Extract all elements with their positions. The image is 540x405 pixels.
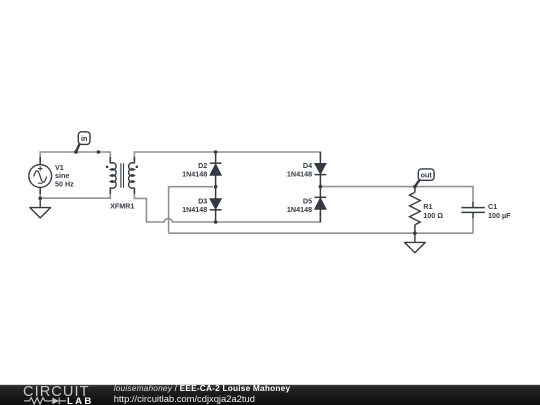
junction dot: in-flag attach — [74, 150, 78, 154]
svg-text:1N4148: 1N4148 — [287, 169, 312, 178]
wire: bottom rail (net 0) riser to R1/C1 bottoms — [169, 232, 473, 234]
junction dot: D2 top — [214, 150, 218, 154]
wire: C1 bottom lead lower part — [472, 217, 474, 233]
junction dot: D3 bottom — [214, 220, 218, 224]
svg-text:http://circuitlab.com/cdjxqja2: http://circuitlab.com/cdjxqja2a2tud — [114, 393, 255, 404]
svg-text:out: out — [421, 170, 433, 179]
transformer phase dot left — [106, 166, 109, 169]
junction dot: V1 bottom / ground — [38, 196, 42, 200]
wire: transformer secondary bottom to D3/D5 bottoms with hop — [134, 190, 320, 222]
label C1 — [488, 202, 511, 220]
wire: transformer secondary top to D2/D4 tops — [134, 152, 320, 161]
logo waveform: lead, resistor zigzag, diode — [24, 398, 66, 405]
label V1 value — [55, 163, 74, 189]
diode D2 — [210, 152, 222, 187]
capacitor C1 — [461, 202, 485, 218]
svg-text:50 Hz: 50 Hz — [55, 180, 74, 189]
svg-text:LAB: LAB — [67, 396, 94, 405]
wire: D2/D3 junction left, down riser to bottom rail — [169, 187, 213, 234]
svg-text:XFMR1: XFMR1 — [110, 202, 134, 211]
label D2 — [182, 161, 207, 179]
wire net-in: V1 top to transformer primary top — [40, 152, 110, 162]
svg-text:louisemahoney / EEE-CA-2 Louis: louisemahoney / EEE-CA-2 Louise Mahoney — [114, 383, 291, 393]
diode D4 — [315, 152, 327, 187]
label D3 — [182, 197, 207, 215]
junction dot: top wire mid — [97, 150, 101, 154]
junction dot: R1 top / out — [413, 185, 417, 189]
label D5 — [287, 197, 312, 215]
node flag in — [76, 132, 90, 152]
resistor R1 — [410, 187, 421, 234]
svg-text:1N4148: 1N4148 — [287, 205, 312, 214]
junction dot: D4/D5 mid — [319, 185, 323, 189]
ground (under V1) — [30, 198, 51, 218]
junction dot: D2/D3 mid — [214, 185, 218, 189]
voltage source V1 — [29, 157, 52, 194]
junction dot: R1 bottom / ground — [413, 231, 417, 235]
node flag out — [415, 169, 434, 187]
diode D5 — [315, 187, 327, 222]
svg-text:C1: C1 — [488, 202, 497, 211]
label D4 — [287, 161, 312, 179]
svg-text:100 µF: 100 µF — [488, 211, 511, 220]
svg-text:100 Ω: 100 Ω — [423, 211, 443, 220]
svg-text:1N4148: 1N4148 — [182, 205, 207, 214]
transformer XFMR1 — [110, 157, 134, 194]
label R1 — [423, 202, 443, 220]
wire: D4/D5 junction to R1 top and C1 top — [322, 187, 473, 203]
ground (under R1) — [405, 233, 426, 253]
svg-text:R1: R1 — [423, 202, 432, 211]
diode D3 — [210, 187, 222, 222]
footer bar — [0, 385, 540, 405]
transformer phase dot right — [136, 166, 139, 169]
svg-text:in: in — [81, 134, 87, 143]
svg-text:1N4148: 1N4148 — [182, 169, 207, 178]
wire: V1 bottom to transformer primary bottom — [40, 190, 110, 198]
